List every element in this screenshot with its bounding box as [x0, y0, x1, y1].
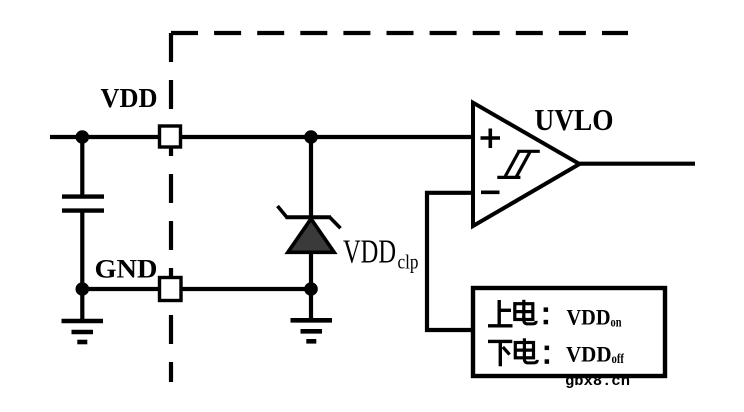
svg-text:VDD: VDD: [343, 233, 396, 270]
glyph 电 (line 2): [515, 338, 537, 363]
pad GND: [160, 278, 182, 301]
glyph 下 (line 2): [488, 341, 512, 366]
capacitor C1: [62, 197, 104, 211]
dashed boundary horizontal: [171, 31, 628, 35]
wire left branch lower: [80, 210, 84, 289]
wire GND rail: [82, 287, 311, 291]
wire zener ground stem: [309, 289, 313, 319]
glyph ： (line 2): [545, 346, 550, 364]
glyph ： (line 1): [544, 307, 549, 324]
glyph 上 (line 1): [488, 300, 513, 326]
ground (left): [62, 321, 104, 342]
ground (under zener): [291, 320, 333, 341]
svg-text:on: on: [611, 315, 622, 330]
node VDD junction: [76, 130, 90, 144]
wire feedback to minus input: [427, 193, 472, 330]
svg-text:UVLO: UVLO: [535, 102, 614, 137]
wire zener bottom: [309, 250, 313, 289]
dashed boundary vertical: [169, 33, 173, 382]
svg-text:VDD: VDD: [101, 83, 158, 113]
svg-text:GND: GND: [95, 255, 158, 284]
svg-text:off: off: [612, 352, 625, 367]
pin minus: [481, 191, 500, 195]
svg-text:VDD: VDD: [566, 341, 612, 366]
node zener top junction: [304, 130, 318, 144]
pin plus: [481, 129, 501, 149]
wire left ground stem: [80, 289, 84, 320]
svg-text:VDD: VDD: [567, 305, 611, 330]
hysteresis symbol: [497, 151, 540, 177]
comparator U1: [473, 103, 580, 226]
wire left branch upper: [80, 137, 84, 197]
wire comparator output: [578, 162, 695, 166]
wire VDD rail: [50, 135, 473, 139]
pad VDD: [160, 126, 181, 147]
threshold box: [473, 288, 665, 376]
node GND junction: [76, 282, 90, 296]
svg-text:clp: clp: [398, 252, 419, 274]
wire zener top: [309, 137, 313, 217]
glyph 电 (line 1): [515, 300, 536, 324]
zener diode VDDclp: [278, 206, 341, 252]
node zener bottom junction: [304, 282, 318, 296]
